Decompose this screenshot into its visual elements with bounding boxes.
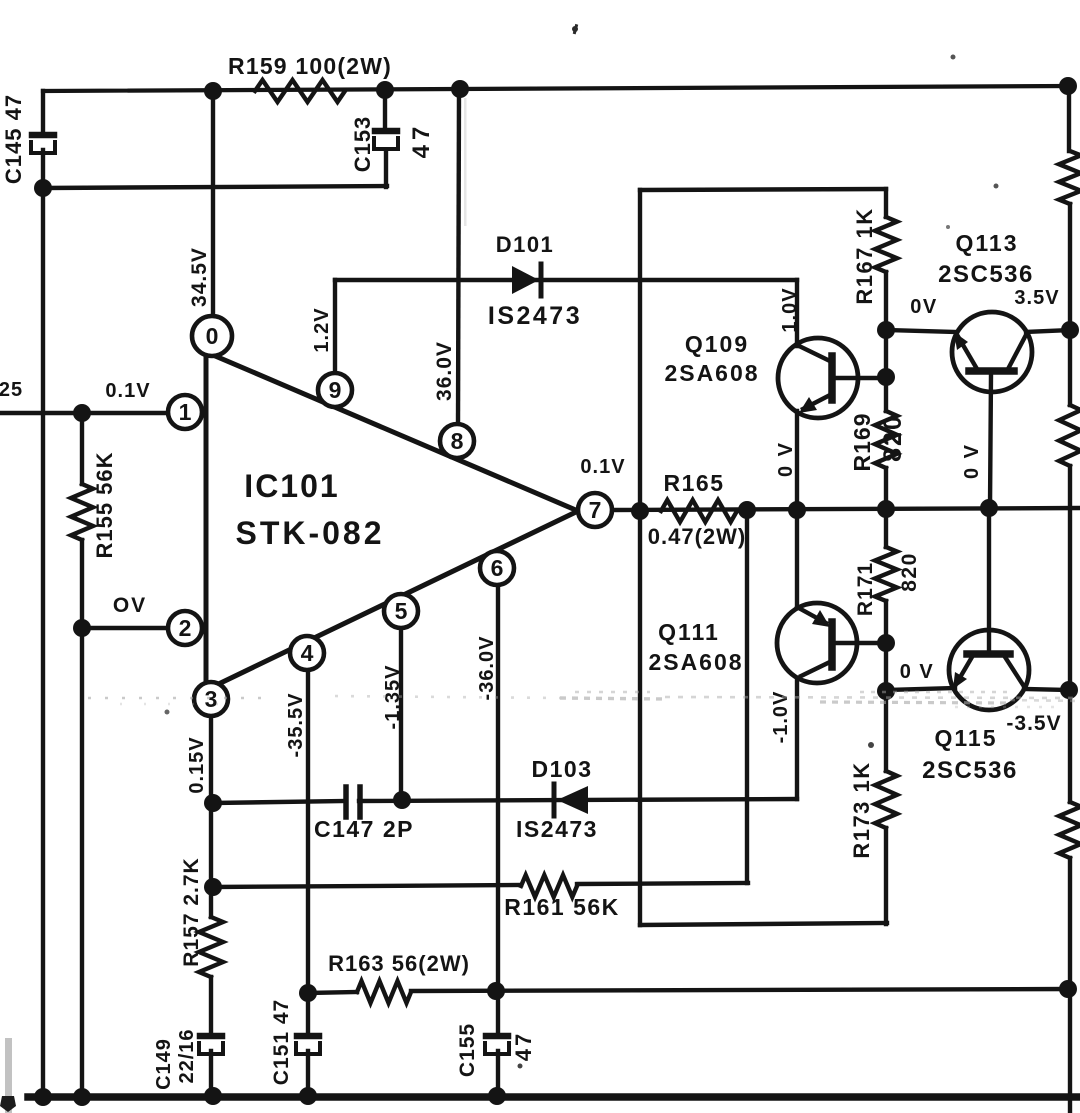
svg-text:1.2V: 1.2V [311,307,333,352]
svg-text:C145 47: C145 47 [1,94,26,184]
svg-text:2SC536: 2SC536 [922,757,1018,784]
node ground bus / C145 column [34,1088,52,1106]
node pin4 / R163 [299,984,317,1002]
wire feedback box left side [638,190,642,925]
svg-text:Q111: Q111 [658,619,720,645]
node Q113 collector / right column [1061,321,1079,339]
wire feedback box bottom [640,923,887,925]
node pin2 / R155 [73,619,91,637]
wire D103 bias line left [213,801,346,803]
node R167 / Q113 emitter line [877,321,895,339]
wire pin 9 riser [333,280,337,374]
wire Q109 emitter drop to output [795,411,799,510]
diode D101 1S2473 [512,264,541,296]
resistor R155 56K [71,484,93,540]
svg-text:3: 3 [205,686,218,712]
capacitor C149 22/16 [199,1036,223,1054]
wire D101 bias line y=280 [335,278,797,282]
resistor right column middle (cut) [1059,405,1080,466]
wire Q115 base riser from output [987,508,991,653]
wire R155 upper lead [80,413,84,484]
wire C145 bottom lead down left column [41,150,45,1097]
svg-text:34.5V: 34.5V [188,247,211,307]
pin 6 of IC101 [480,551,514,585]
svg-text:0 V: 0 V [775,441,797,477]
resistor right column lower (cut) [1059,802,1080,858]
svg-text:OV: OV [113,594,147,617]
svg-text:6: 6 [491,555,504,581]
svg-text:0 V: 0 V [900,661,935,683]
svg-text:R161 56K: R161 56K [504,894,620,920]
wire Q111 emitter riser from output [795,510,799,607]
wire Q113 collector line [1026,330,1070,332]
wire R163 right line to right column [411,989,1068,991]
transistor Q113 2SC536 [952,312,1032,392]
wire pin 6 stem [496,585,500,1035]
node pin6 / R163 [487,982,505,1000]
svg-text:4: 4 [301,640,314,666]
wire pin 8 riser to top rail [458,89,459,424]
svg-text:36.0V: 36.0V [433,341,456,401]
wire Q111 base lead [832,641,886,645]
wire C145 top lead [41,91,45,134]
wire C151 lower lead [306,1051,310,1097]
node top rail / C153 [376,81,394,99]
node Q111 base / bias chain [877,634,895,652]
wire R161 to riser [577,883,748,884]
capacitor C145 47 [31,135,55,153]
svg-text:C147 2P: C147 2P [314,816,414,842]
svg-text:2: 2 [179,615,192,641]
node ground bus / R155 column [73,1088,91,1106]
svg-text:0: 0 [206,323,219,349]
svg-text:Q109: Q109 [685,331,749,357]
wire R161 feedback line [213,885,521,887]
wire right column top segment [1067,86,1071,151]
pin 5 of IC101 [384,594,418,628]
transistor Q115 2SC536 [949,630,1029,710]
svg-text:2SC536: 2SC536 [938,261,1034,288]
svg-text:0.1V: 0.1V [580,456,625,478]
svg-text:R159 100(2W): R159 100(2W) [228,53,392,79]
resistor R159 100(2W) [255,80,345,102]
capacitor C151 47 [296,1036,320,1054]
wire pin 2 to R155 node [82,626,169,630]
node top rail / pin8 riser [451,80,469,98]
wire input to pin 1 [0,411,169,415]
pin 3 of IC101 [194,682,228,716]
node output / bias chain [877,500,895,518]
svg-text:R171: R171 [854,562,877,616]
wire R157 lower lead [209,977,213,1035]
wire right column bottom segment [1068,858,1072,1113]
svg-text:R163 56(2W): R163 56(2W) [328,951,470,976]
wire C155 lower lead [496,1051,500,1097]
wire output line from pin 7 [612,508,1080,510]
svg-text:47: 47 [408,122,435,159]
node ground bus / C155 [488,1087,506,1105]
svg-text:D101: D101 [496,232,555,257]
svg-text:R165: R165 [664,470,725,496]
node pin3 / D103 line [204,794,222,812]
wire R173 bottom lead [884,828,888,924]
pin 9 of IC101 [318,373,352,407]
wire riser R161 to output [745,510,749,883]
svg-text:R167 1K: R167 1K [852,207,877,304]
svg-text:Q113: Q113 [956,230,1019,256]
wire R163 left lead [308,992,357,993]
svg-text:IS2473: IS2473 [488,302,582,330]
svg-text:C155: C155 [456,1023,479,1077]
svg-text:5: 5 [395,598,408,624]
svg-text:1: 1 [179,399,192,425]
svg-text:IC101: IC101 [244,468,339,504]
wire right column lower segment [1068,466,1072,802]
svg-text:C153: C153 [350,116,375,173]
wire Q109 base lead [832,376,886,380]
resistor R165 0.47(2W) [661,500,737,522]
node output / R165-R161 [738,501,756,519]
wire Q109 collector drop [795,280,799,346]
pin 8 of IC101 [440,424,474,458]
node ground bus / C151 [299,1087,317,1105]
wire pin0 supply stem [211,91,215,320]
svg-text:22/16: 22/16 [176,1028,198,1083]
resistor R157 2.7K [199,917,223,977]
wire D103 bias line right [359,799,797,801]
capacitor C153 47 [374,131,398,149]
svg-text:2SA608: 2SA608 [648,649,743,675]
svg-text:820: 820 [879,414,907,462]
wire C153 bottom lead [384,151,388,187]
svg-text:-3.5V: -3.5V [1006,712,1061,735]
op-amp IC101 STK-082 triangle [206,350,578,692]
node pin3 / R161 line [204,878,222,896]
resistor R171 820 [875,547,897,601]
svg-text:0.47(2W): 0.47(2W) [648,524,746,549]
svg-text:-36.0V: -36.0V [476,636,498,701]
node output / box left [631,502,649,520]
svg-text:R157 2.7K: R157 2.7K [180,857,203,966]
resistor R163 56(2W) [357,981,411,1003]
wire R155 lower lead down to ground bus [80,540,84,1097]
wire pin 5 stem [399,628,403,800]
node Q115 emitter line / chain [877,682,895,700]
wire C153 top lead [383,90,387,129]
wire right column middle segment [1068,204,1072,405]
pin 7 of IC101 [578,493,612,527]
svg-text:C149: C149 [153,1038,175,1090]
wire Q111 collector drop [795,680,799,799]
node pin5 / D103 line [393,791,411,809]
svg-text:Q115: Q115 [935,725,998,751]
svg-text:IS2473: IS2473 [516,816,598,842]
resistor R161 56K [521,875,577,897]
svg-text:0V: 0V [910,296,937,318]
svg-text:R173 1K: R173 1K [849,761,874,858]
node output / Q113-Q115 bases [980,499,998,517]
svg-text:R169: R169 [849,413,875,472]
svg-text:D103: D103 [532,756,593,782]
svg-text:STK-082: STK-082 [235,515,384,551]
svg-text:C151 47: C151 47 [270,999,293,1085]
wire bias chain R171-R173 segment [884,601,888,771]
node ground bus / C149 [204,1087,222,1105]
node top rail / pin0 [204,82,222,100]
wire C149 lower lead [209,1051,213,1097]
wire +B top rail [43,86,1069,91]
wire Q115 collector line [1024,689,1069,690]
node C145 return [34,179,52,197]
svg-text:0.1V: 0.1V [105,380,150,402]
svg-text:9: 9 [329,377,342,403]
pin 2 of IC101 [168,611,202,645]
svg-text:0.15V: 0.15V [186,736,208,793]
resistor R173 1K [875,771,897,828]
svg-text:820: 820 [898,552,921,592]
wire bias chain R169-R171 segment [884,468,888,547]
pin 4 of IC101 [290,636,324,670]
wire Q115 emitter line [886,688,955,690]
svg-text:25: 25 [0,379,23,401]
resistor R169 820 [875,411,897,468]
pin 1 of IC101 [168,395,202,429]
wire pin 4 stem [306,670,310,1035]
svg-text:8: 8 [451,428,464,454]
capacitor C147 2P [346,787,360,817]
wire bypass return y=187 [43,186,387,188]
node input / R155 [73,404,91,422]
wire Q113 emitter line [886,330,956,332]
wire ground bus bottom [28,1093,1080,1101]
pin 0 of IC101 [192,316,232,356]
wire R167 top lead [884,189,888,217]
wire pin 3 stem upper [209,714,213,917]
svg-text:0 V: 0 V [961,443,983,479]
transistor Q109 2SA608 [778,338,858,418]
svg-text:2SA608: 2SA608 [664,360,759,386]
wire bias chain R167-R169 segment [884,272,888,411]
svg-text:-35.5V: -35.5V [285,693,307,758]
node Q109 base / bias chain [877,368,895,386]
svg-text:47: 47 [511,1031,536,1061]
svg-text:3.5V: 3.5V [1014,287,1059,309]
node Q115 collector / right column [1060,681,1078,699]
svg-text:R155 56K: R155 56K [92,451,117,558]
node R163 line / right column [1059,980,1077,998]
svg-text:7: 7 [589,497,602,523]
wire Q113 base drop to output [990,374,991,508]
diode D103 1S2473 [554,784,588,816]
wire feedback box top [640,189,886,190]
capacitor C155 47 [485,1036,509,1054]
svg-text:1.0V: 1.0V [779,287,801,332]
node top rail / right column [1059,77,1077,95]
transistor Q111 2SA608 [777,603,857,683]
resistor right column upper (cut) [1059,151,1080,204]
node output / Q109-Q111 emitters [788,501,806,519]
resistor R167 1K [875,217,897,272]
